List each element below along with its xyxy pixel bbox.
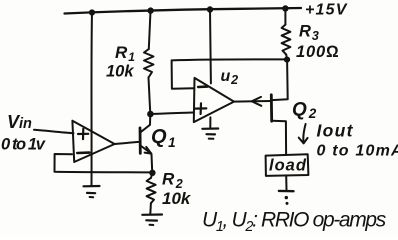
svg-text:0 to 10mA: 0 to 10mA [317, 143, 398, 160]
svg-text:10k: 10k [106, 63, 134, 81]
svg-text:R1: R1 [115, 43, 136, 64]
svg-text:R2: R2 [162, 170, 184, 192]
svg-text:Q1: Q1 [151, 126, 176, 150]
svg-text:10k: 10k [162, 189, 192, 208]
svg-text:R3: R3 [299, 23, 320, 44]
svg-text:Vin: Vin [7, 112, 32, 132]
svg-text:+15V: +15V [305, 2, 348, 19]
svg-text:Q2: Q2 [292, 100, 317, 122]
svg-text:load: load [269, 157, 307, 175]
svg-text:U1, U2: RRIO op-amps: U1, U2: RRIO op-amps [202, 209, 387, 236]
svg-text:u2: u2 [221, 68, 239, 87]
svg-text:0 to 1v: 0 to 1v [1, 136, 46, 154]
svg-text:100Ω: 100Ω [296, 43, 339, 61]
svg-text:Iout: Iout [317, 121, 354, 141]
